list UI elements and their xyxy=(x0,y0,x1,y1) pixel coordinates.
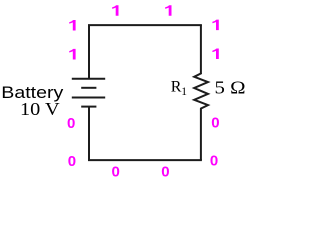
node label: 1 (top wire, right) xyxy=(165,5,171,16)
svg-text:0: 0 xyxy=(68,153,76,170)
wire: top segment xyxy=(88,24,202,26)
node label: 1 (left wire, above battery) xyxy=(69,49,75,60)
svg-text:10 V: 10 V xyxy=(20,99,60,119)
svg-text:0: 0 xyxy=(161,164,169,181)
wire: left upper segment xyxy=(88,25,90,79)
svg-text:5 Ω: 5 Ω xyxy=(215,78,246,98)
svg-text:0: 0 xyxy=(112,164,120,181)
svg-text:0: 0 xyxy=(211,115,219,132)
resistor R1 zigzag xyxy=(194,73,208,108)
node label: 1 (right wire, at top corner) xyxy=(212,20,218,31)
svg-text:0: 0 xyxy=(67,115,75,132)
node label: 1 (right wire, above resistor) xyxy=(212,49,218,60)
wire: left lower segment xyxy=(88,107,90,161)
wire: right upper segment xyxy=(200,25,202,73)
node label: 1 (top wire, left) xyxy=(112,5,118,16)
battery (Battery 10 V) xyxy=(72,79,105,107)
wire: bottom segment xyxy=(88,159,202,161)
svg-text:R: R xyxy=(171,79,182,96)
node label: 1 (left wire, at top corner) xyxy=(69,20,75,31)
svg-text:0: 0 xyxy=(210,153,218,170)
wire: right lower segment xyxy=(200,108,202,160)
svg-text:1: 1 xyxy=(181,86,187,98)
